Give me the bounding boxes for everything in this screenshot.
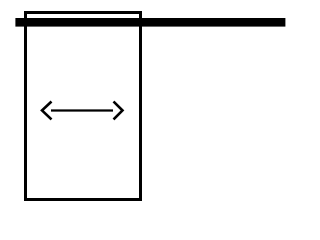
right arrowhead: [114, 102, 123, 120]
left arrowhead: [42, 102, 52, 120]
arrow shaft: [51, 109, 113, 111]
sliding panel: [26, 13, 141, 200]
track rail: [15, 18, 285, 27]
